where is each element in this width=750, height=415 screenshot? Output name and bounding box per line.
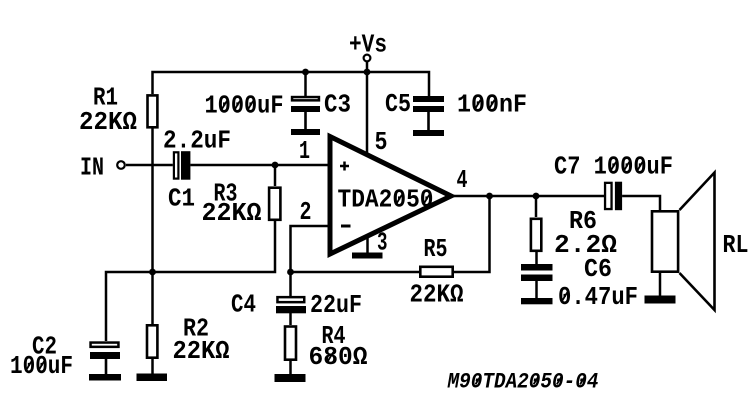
node junction C3/rail [302,69,309,76]
svg-text:2.2uF: 2.2uF [163,126,231,156]
wire R2 top lead [151,272,154,324]
ground C2 [89,374,121,381]
ground speaker [645,296,676,304]
node junction input/R3 [272,162,279,169]
wire C4 top lead [289,272,292,296]
wire R6 top lead [535,196,538,217]
wire pin3 ground stem [366,238,369,253]
svg-text:680Ω: 680Ω [309,342,368,372]
svg-text:0.47uF: 0.47uF [558,282,638,312]
resistor R5 [420,267,452,277]
svg-text:C5: C5 [385,89,411,119]
svg-text:C3: C3 [324,90,351,120]
svg-text:C4: C4 [231,290,256,320]
node junction feedback C4 [287,269,294,276]
wire R1 bottom lead crossing input [151,129,154,273]
resistor R3 [269,188,280,220]
wire output: apex to C7 [451,195,604,198]
ground C6 [521,298,553,304]
resistor R2 [147,325,157,357]
svg-text:22KΩ: 22KΩ [173,336,230,366]
capacitor C5 (ceramic, vertical) [413,96,444,130]
svg-text:2: 2 [300,197,312,227]
capacitor C6 (film, vertical) [521,264,553,281]
wire pin2 to feedback node [291,226,331,272]
svg-text:4: 4 [457,165,468,195]
svg-text:22KΩ: 22KΩ [79,107,137,137]
svg-text:IN: IN [80,153,104,183]
svg-text:3: 3 [377,228,388,258]
wire C4 to R4 [289,313,292,325]
wire R5 to output node [454,196,490,272]
svg-text:22KΩ: 22KΩ [410,280,464,310]
capacitor C7 (series, horizontal) [605,182,622,211]
node junction output/R5 [486,193,493,200]
wire R4 to ground [289,361,292,374]
ground R4 [275,374,306,382]
capacitor C3 (electrolytic, vertical) [291,97,320,129]
wire speaker bottom lead [659,273,662,296]
svg-text:22uF: 22uF [310,290,362,320]
op-amp U1 TDA2050 [330,137,451,255]
wire feedback node to R5 [291,271,420,274]
resistor R1 [148,95,158,127]
wire C1 to pin1 [190,164,330,167]
resistor R6 [531,219,541,251]
wire IN to C1 [126,164,173,167]
terminal +Vs [349,30,387,62]
svg-text:22KΩ: 22KΩ [202,198,262,228]
wire C7 to speaker [622,196,660,211]
terminal IN [80,153,125,183]
capacitor C1 (series, horizontal) [174,151,191,180]
node junction output/R6 [533,193,540,200]
wire top supply rail with R1 top lead and C5 drop [153,72,430,96]
capacitor C2 (electrolytic, vertical) [90,343,120,374]
svg-text:+Vs: +Vs [349,30,387,60]
node junction +Vs/rail [364,69,371,76]
svg-text:1000uF: 1000uF [205,91,284,121]
ground R2 [137,374,168,382]
svg-text:M90TDA2050-04: M90TDA2050-04 [447,370,599,395]
svg-text:C1: C1 [168,184,195,214]
wire R2 bottom lead [151,359,154,374]
node junction bias R1/R2 [149,269,156,276]
ground C5 [413,130,444,136]
wire bias node: C2 lead up, horizontal, R3 bottom lead [106,221,275,341]
ground pin3 [352,253,383,259]
resistor R4 [285,327,296,360]
svg-text:R5: R5 [424,234,448,264]
wire C6 stem to ground [535,281,538,298]
ground C3 [291,129,320,135]
wire C3 top lead [304,72,307,96]
wire R6 to C6 [535,252,538,264]
svg-text:5: 5 [375,127,388,157]
zero slash marks on value labels (DOS font style) [26,100,642,385]
svg-text:1: 1 [299,136,310,166]
svg-text:TDA2050: TDA2050 [338,185,434,215]
capacitor C4 (electrolytic, vertical) [276,297,306,313]
svg-text:C6: C6 [584,254,612,284]
wire R3 top lead [274,165,277,186]
svg-text:RL: RL [723,230,749,260]
speaker RL [652,173,715,311]
wire +Vs stub / pin5 vertical [366,62,369,156]
